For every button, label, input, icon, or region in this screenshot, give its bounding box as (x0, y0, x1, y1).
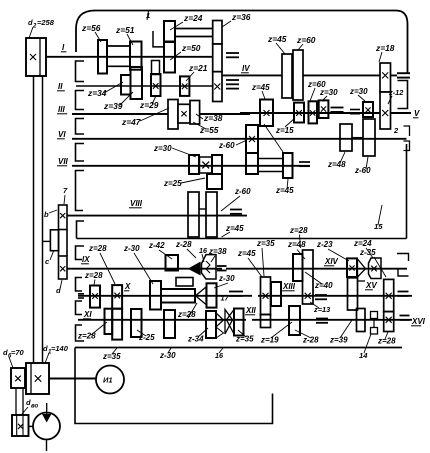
svg-text:z=47: z=47 (121, 117, 141, 127)
svg-text:IV: IV (242, 64, 250, 73)
svg-text:z-30: z-30 (159, 351, 176, 360)
svg-text:b: b (44, 210, 49, 219)
svg-text:XV: XV (365, 281, 377, 290)
svg-text:z=25: z=25 (163, 179, 182, 188)
svg-text:z=28: z=28 (377, 337, 396, 346)
svg-text:z=24: z=24 (353, 239, 372, 248)
svg-text:VII: VII (58, 157, 69, 166)
svg-text:z=40: z=40 (314, 281, 333, 290)
svg-text:z-35: z-35 (359, 248, 376, 257)
svg-text:XII: XII (245, 306, 257, 315)
svg-text:z=51: z=51 (115, 25, 135, 35)
svg-text:1: 1 (146, 11, 150, 20)
svg-text:z=45: z=45 (275, 186, 294, 195)
svg-text:XI: XI (83, 310, 92, 319)
svg-text:z=35: z=35 (256, 239, 275, 248)
svg-text:z=38: z=38 (203, 113, 223, 123)
svg-text:16: 16 (199, 246, 208, 255)
svg-text:z=28: z=28 (84, 271, 103, 280)
svg-text:z-60: z-60 (234, 187, 251, 196)
svg-text:XVI: XVI (411, 317, 426, 326)
svg-text:z-28: z-28 (175, 240, 192, 249)
svg-text:z=48: z=48 (287, 240, 306, 249)
svg-text:XIII: XIII (282, 282, 296, 291)
svg-text:z=24: z=24 (183, 13, 203, 23)
svg-text:z=28: z=28 (88, 244, 107, 253)
svg-text:14: 14 (359, 351, 368, 360)
svg-text:z-12: z-12 (388, 88, 404, 97)
svg-text:z=60: z=60 (296, 35, 316, 45)
svg-text:=140: =140 (51, 344, 69, 353)
svg-text:z-25: z-25 (138, 333, 155, 342)
svg-text:IX: IX (82, 255, 90, 264)
svg-text:z=35: z=35 (102, 352, 121, 361)
svg-text:z=21: z=21 (188, 63, 208, 73)
svg-text:z=30: z=30 (319, 88, 338, 97)
svg-text:z=19: z=19 (260, 336, 279, 345)
svg-text:=258: =258 (37, 18, 55, 27)
svg-text:z-23: z-23 (316, 240, 333, 249)
svg-text:z-60: z-60 (354, 166, 371, 175)
svg-text:z=50: z=50 (181, 43, 201, 53)
svg-text:17: 17 (221, 294, 230, 303)
svg-text:z=45: z=45 (225, 224, 244, 233)
svg-text:z=39: z=39 (103, 101, 123, 111)
svg-text:z=34: z=34 (87, 88, 107, 98)
svg-text:2: 2 (393, 126, 399, 135)
svg-text:z-30: z-30 (123, 244, 140, 253)
svg-text:z=45: z=45 (237, 249, 256, 258)
svg-text:II: II (58, 82, 63, 91)
svg-text:z=45: z=45 (251, 83, 270, 92)
svg-text:z=18: z=18 (375, 43, 395, 53)
svg-text:V: V (414, 109, 420, 118)
svg-text:z-30: z-30 (218, 274, 235, 283)
svg-text:z=30: z=30 (349, 87, 368, 96)
svg-text:VIII: VIII (130, 199, 143, 208)
svg-text:z=36: z=36 (231, 12, 251, 22)
svg-text:z-60: z-60 (218, 141, 235, 150)
svg-text:z-34: z-34 (187, 335, 204, 344)
svg-text:z-42: z-42 (148, 241, 165, 250)
svg-text:И1: И1 (103, 376, 113, 385)
svg-text:z=39: z=39 (329, 336, 348, 345)
svg-text:во: во (31, 404, 38, 410)
svg-text:z=48: z=48 (327, 160, 346, 169)
svg-text:z=56: z=56 (81, 23, 101, 33)
svg-text:z=28: z=28 (289, 226, 308, 235)
svg-text:z=29: z=29 (139, 100, 159, 110)
svg-text:XIV: XIV (324, 257, 339, 266)
svg-text:X: X (124, 282, 131, 291)
svg-text:=70: =70 (11, 348, 25, 357)
svg-text:VI: VI (58, 130, 66, 139)
svg-text:z-28: z-28 (302, 336, 319, 345)
svg-text:z=28: z=28 (177, 310, 196, 319)
svg-text:z=30: z=30 (153, 144, 172, 153)
svg-text:z=15: z=15 (275, 126, 294, 135)
svg-text:z=45: z=45 (267, 34, 287, 44)
svg-text:III: III (58, 105, 65, 114)
